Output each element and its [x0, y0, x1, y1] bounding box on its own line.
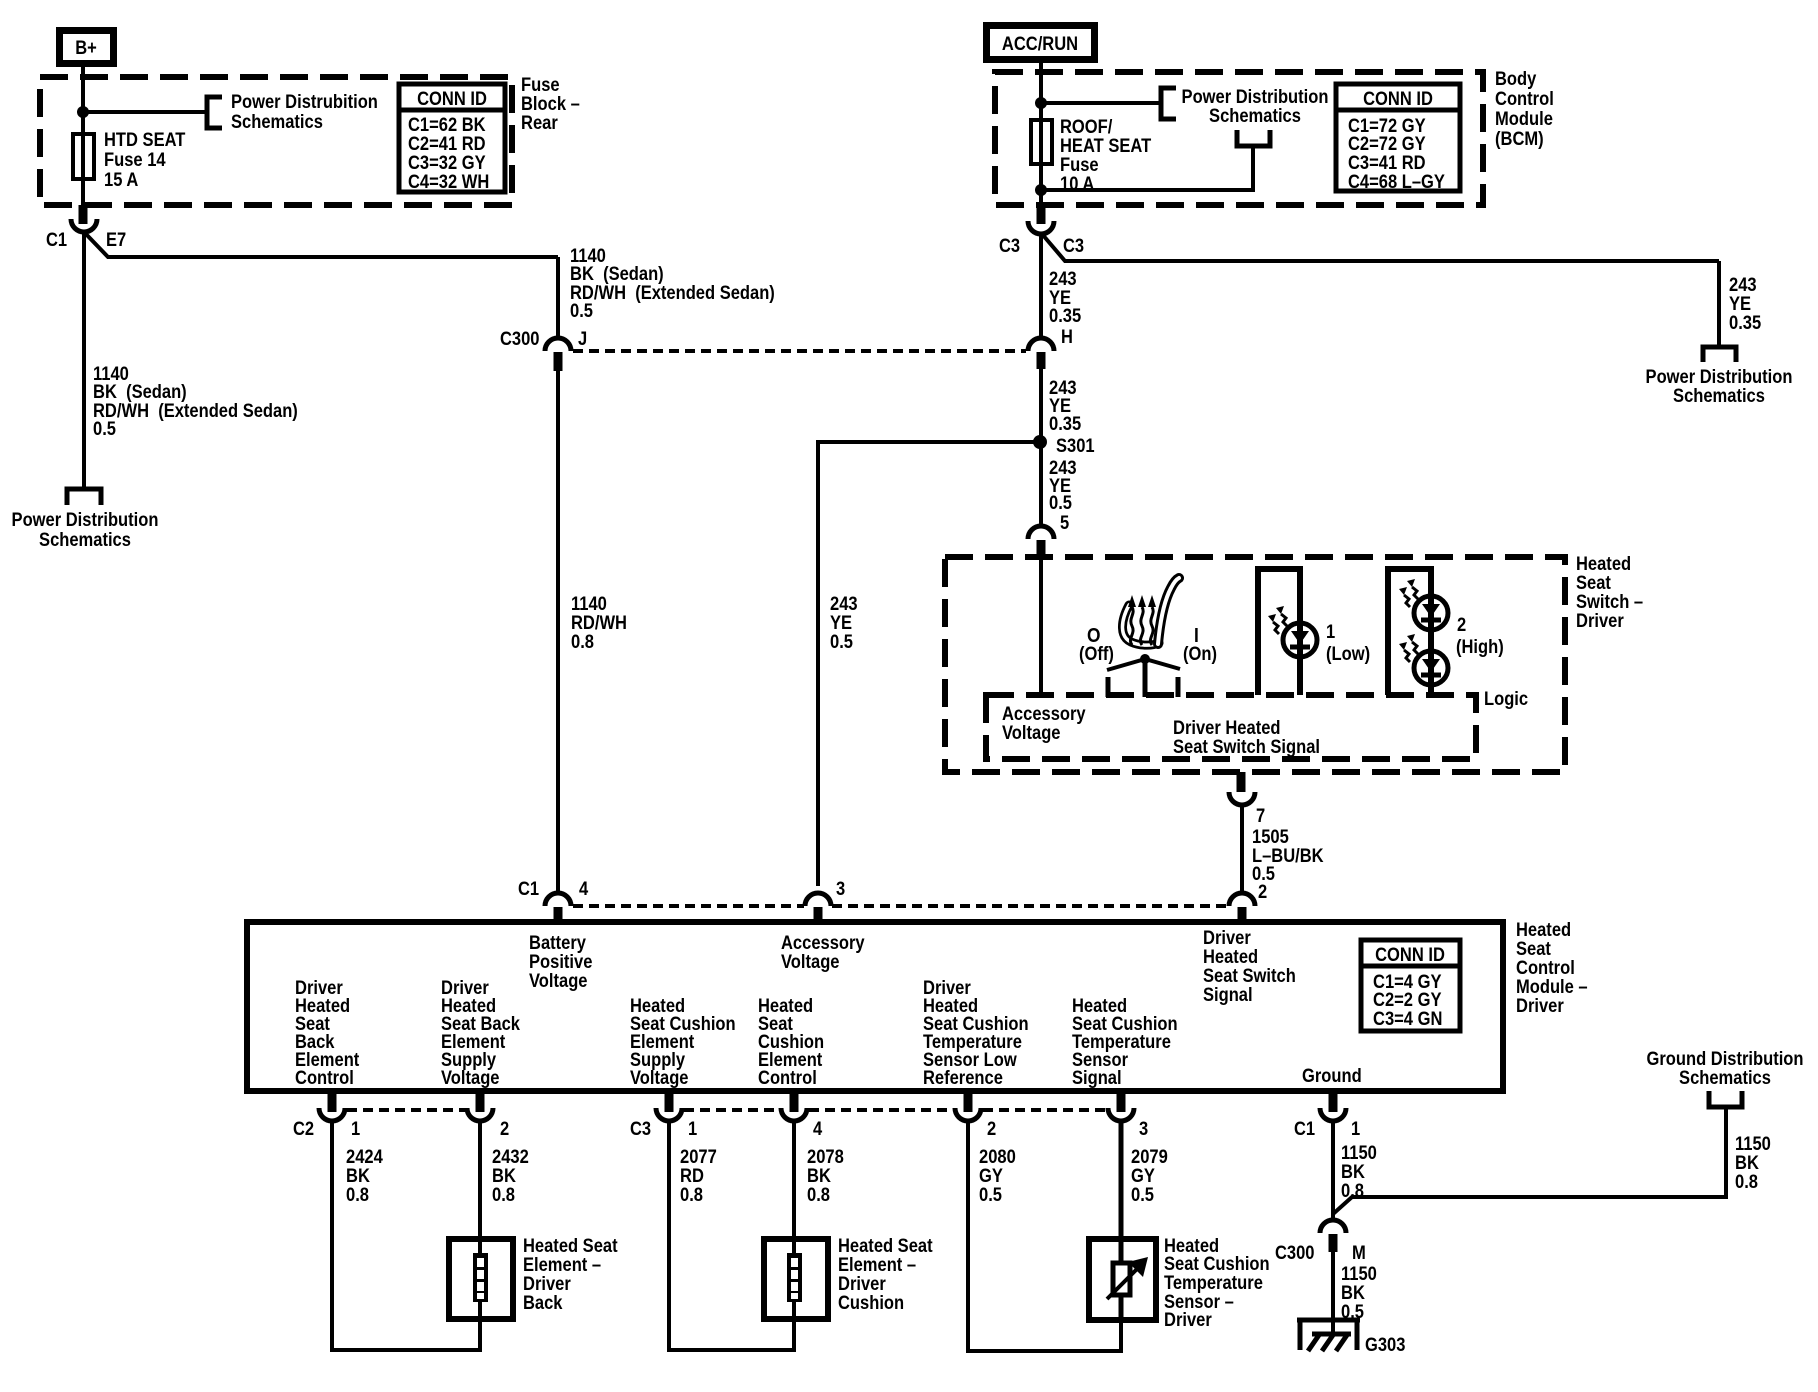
svg-text:BK: BK [346, 1166, 370, 1187]
svg-text:Control: Control [295, 1068, 354, 1089]
svg-text:Seat Switch Signal: Seat Switch Signal [1173, 737, 1320, 758]
svg-text:1150: 1150 [1341, 1264, 1377, 1285]
svg-text:C2: C2 [293, 1119, 314, 1140]
svg-text:C2=41 RD: C2=41 RD [408, 134, 486, 155]
svg-text:0.8: 0.8 [807, 1185, 830, 1206]
svg-text:C2=72 GY: C2=72 GY [1348, 134, 1426, 155]
svg-text:C300: C300 [1275, 1243, 1315, 1264]
wire bracket to fuse output [1041, 148, 1253, 190]
junction node [1035, 97, 1047, 109]
svg-text:G303: G303 [1365, 1335, 1405, 1356]
svg-text:Back: Back [523, 1293, 563, 1314]
svg-text:1505: 1505 [1252, 827, 1289, 848]
wire 1150 BK 0.5 [1331, 1252, 1335, 1336]
svg-text:0.5: 0.5 [830, 632, 853, 653]
svg-text:Voltage: Voltage [441, 1068, 500, 1089]
svg-text:243: 243 [830, 594, 858, 615]
svg-text:C3: C3 [1063, 236, 1084, 257]
ground G303 [1297, 1320, 1360, 1350]
svg-text:Control: Control [1516, 958, 1575, 979]
svg-text:1150: 1150 [1735, 1134, 1771, 1155]
svg-text:C4=68 L–GY: C4=68 L–GY [1348, 172, 1445, 193]
heated seat cushion temperature sensor - driver [1089, 1239, 1156, 1320]
svg-text:Module: Module [1495, 109, 1553, 130]
svg-text:(Low): (Low) [1326, 644, 1370, 665]
svg-text:Switch –: Switch – [1576, 592, 1643, 613]
svg-text:2424: 2424 [346, 1147, 383, 1168]
svg-text:1: 1 [1351, 1119, 1361, 1140]
svg-text:Seat: Seat [1516, 939, 1551, 960]
svg-text:7: 7 [1256, 806, 1265, 827]
svg-text:Accessory: Accessory [1002, 704, 1086, 725]
svg-text:Fuse: Fuse [1060, 155, 1099, 176]
svg-text:Voltage: Voltage [1002, 723, 1061, 744]
svg-text:(Off): (Off) [1079, 644, 1114, 665]
connector C3 pin 2 [964, 1091, 973, 1112]
conn id table (module) [1361, 940, 1460, 1031]
svg-text:Heated: Heated [1203, 947, 1258, 968]
svg-text:Control: Control [1495, 89, 1554, 110]
svg-text:YE: YE [1729, 294, 1751, 315]
svg-text:Reference: Reference [923, 1068, 1003, 1089]
svg-text:C3=41 RD: C3=41 RD [1348, 153, 1426, 174]
heat wave 3 [1150, 607, 1153, 645]
wire ACC/RUN to fuse [1039, 59, 1043, 120]
svg-text:Driver: Driver [1576, 611, 1624, 632]
svg-text:Driver: Driver [838, 1274, 886, 1295]
dashed connector line C300 (J to H) [573, 349, 1026, 353]
wire E7 to C300 [556, 257, 560, 340]
svg-text:RD/WH: RD/WH [571, 613, 627, 634]
svg-text:Ground: Ground [1302, 1066, 1362, 1087]
connector C3 C3 (BCM output) [1037, 205, 1046, 224]
wire C3 to H [1039, 234, 1043, 340]
wire 2079 run [1119, 1120, 1124, 1263]
svg-text:BK: BK [807, 1166, 831, 1187]
wire C3 branch right [1042, 234, 1719, 261]
svg-text:5: 5 [1060, 513, 1070, 534]
conn id table (fuse block) [399, 84, 505, 192]
wire S301 branch to module pin 3 [818, 442, 1040, 886]
wire 2432 run [478, 1120, 482, 1253]
svg-text:C3=32 GY: C3=32 GY [408, 153, 486, 174]
svg-text:ROOF/: ROOF/ [1060, 117, 1113, 138]
svg-text:0.35: 0.35 [1049, 414, 1082, 435]
connector C2 pin 1 [328, 1091, 337, 1112]
svg-text:Control: Control [758, 1068, 817, 1089]
svg-text:Heated Seat: Heated Seat [523, 1236, 618, 1257]
heated seat element - driver cushion [764, 1239, 828, 1319]
svg-text:RD/WH (Extended Sedan): RD/WH (Extended Sedan) [93, 401, 298, 422]
svg-text:BK: BK [1735, 1153, 1759, 1174]
svg-text:2078: 2078 [807, 1147, 844, 1168]
wire C1 ground pin to C300 [1331, 1120, 1335, 1222]
connector C3 pin 4 [790, 1091, 799, 1112]
svg-text:Seat Cushion: Seat Cushion [1164, 1254, 1270, 1275]
connector C1 pin 1 (ground) [1329, 1091, 1338, 1112]
svg-text:Driver: Driver [523, 1274, 571, 1295]
svg-text:BK: BK [1341, 1162, 1365, 1183]
LED indicator 2 (High) [1388, 569, 1431, 695]
power distribution schematics bracket [207, 97, 222, 128]
svg-text:3: 3 [836, 879, 845, 900]
svg-text:2079: 2079 [1131, 1147, 1168, 1168]
svg-text:C3: C3 [630, 1119, 651, 1140]
off-page ref power distribution (bottom left) [67, 489, 101, 505]
svg-text:CONN ID: CONN ID [1375, 945, 1445, 966]
wire H to S301 [1039, 369, 1043, 442]
svg-text:243: 243 [1729, 275, 1757, 296]
wire 1140 RD/WH to module pin 4 [556, 371, 560, 895]
svg-text:(High): (High) [1456, 637, 1504, 658]
svg-text:Fuse 14: Fuse 14 [104, 150, 166, 171]
svg-text:Fuse: Fuse [521, 75, 560, 96]
svg-text:Schematics: Schematics [231, 112, 323, 133]
wire branch to power distribution ref [83, 110, 207, 114]
svg-text:Element –: Element – [838, 1255, 916, 1276]
logic dashed box [986, 695, 1476, 759]
svg-text:15 A: 15 A [104, 170, 139, 191]
wire 243 YE 0.35 (right) [1717, 261, 1721, 346]
wire fuse to box edge [1039, 164, 1043, 205]
heat wave 2 [1140, 607, 1143, 645]
svg-text:Heated: Heated [1516, 920, 1571, 941]
wire 1150 BK 0.8 from ground distribution [1333, 1107, 1726, 1214]
svg-text:Temperature: Temperature [1164, 1273, 1263, 1294]
svg-text:0.8: 0.8 [1735, 1172, 1758, 1193]
svg-text:BK: BK [1341, 1283, 1365, 1304]
svg-text:2080: 2080 [979, 1147, 1016, 1168]
svg-text:C1: C1 [1294, 1119, 1315, 1140]
connector C1 E7 (fuse block output) [81, 179, 85, 205]
svg-text:H: H [1061, 327, 1073, 348]
svg-text:RD/WH (Extended Sedan): RD/WH (Extended Sedan) [570, 283, 775, 304]
splice S301 [1033, 435, 1047, 449]
conn id table (BCM) [1336, 84, 1460, 191]
svg-text:1140: 1140 [571, 594, 607, 615]
svg-text:E7: E7 [106, 230, 126, 251]
svg-text:0.5: 0.5 [1131, 1185, 1154, 1206]
svg-text:C1: C1 [518, 879, 539, 900]
svg-text:HTD SEAT: HTD SEAT [104, 130, 186, 151]
switch lever [1107, 659, 1180, 670]
svg-text:Battery: Battery [529, 933, 586, 954]
fuse F14 HTD SEAT 15A [73, 134, 94, 179]
svg-text:Power Distribution: Power Distribution [12, 510, 159, 531]
connector 5 (switch input) [1028, 526, 1054, 539]
svg-text:0.35: 0.35 [1049, 306, 1082, 327]
svg-text:3: 3 [1139, 1119, 1148, 1140]
wire 2078 run [792, 1120, 796, 1253]
power distribution schematics bracket (BCM) [1161, 88, 1176, 119]
connector C3 pin 3 [1117, 1091, 1126, 1112]
svg-text:C2=2 GY: C2=2 GY [1373, 990, 1442, 1011]
wire accessory voltage [1039, 557, 1043, 695]
fuse ROOF/HEAT SEAT 10A [1031, 120, 1052, 164]
svg-text:2: 2 [1457, 615, 1466, 636]
heated seat switch - driver dashed box [945, 557, 1565, 772]
svg-text:Rear: Rear [521, 113, 558, 134]
svg-text:Ground Distribution: Ground Distribution [1647, 1049, 1804, 1070]
svg-text:Body: Body [1495, 69, 1537, 90]
svg-text:2: 2 [500, 1119, 509, 1140]
svg-text:Logic: Logic [1484, 689, 1528, 710]
svg-text:Driver: Driver [1164, 1310, 1212, 1331]
svg-text:Power Distribution: Power Distribution [1646, 367, 1793, 388]
svg-text:0.5: 0.5 [93, 419, 116, 440]
svg-text:Schematics: Schematics [39, 530, 131, 551]
svg-text:Power Distrubition: Power Distrubition [231, 92, 378, 113]
svg-text:J: J [578, 329, 587, 350]
svg-text:Driver: Driver [1203, 928, 1251, 949]
svg-text:Signal: Signal [1203, 985, 1253, 1006]
svg-text:0.35: 0.35 [1729, 313, 1762, 334]
wire 1140 to power distribution [82, 232, 86, 487]
svg-text:Signal: Signal [1072, 1068, 1122, 1089]
svg-text:2: 2 [1258, 882, 1267, 903]
wire branch to power distribution ref [1041, 101, 1161, 105]
svg-text:1: 1 [1326, 622, 1336, 643]
off-page ref power distribution (right) [1703, 347, 1736, 362]
dashed lines C3 pins [684, 1108, 779, 1112]
svg-text:Module –: Module – [1516, 977, 1588, 998]
svg-text:4: 4 [579, 879, 589, 900]
svg-text:CONN ID: CONN ID [1363, 89, 1433, 110]
wire B+ to fuse [81, 63, 85, 134]
svg-text:2432: 2432 [492, 1147, 529, 1168]
svg-text:S301: S301 [1056, 436, 1095, 457]
svg-text:C300: C300 [500, 329, 540, 350]
svg-text:C4=32 WH: C4=32 WH [408, 172, 489, 193]
svg-text:C1=62 BK: C1=62 BK [408, 115, 486, 136]
junction node [77, 106, 89, 118]
svg-text:RD: RD [680, 1166, 704, 1187]
svg-text:C3: C3 [999, 236, 1020, 257]
wire 2080 run [968, 1120, 1121, 1351]
svg-text:GY: GY [1131, 1166, 1155, 1187]
svg-text:Driver: Driver [1516, 996, 1564, 1017]
svg-text:C3=4 GN: C3=4 GN [1373, 1009, 1442, 1030]
svg-text:B+: B+ [75, 38, 97, 59]
wire S301 to switch pin 5 [1039, 442, 1043, 528]
wire E7 branch to C300 [84, 232, 558, 257]
LED indicator 1 (Low) [1258, 569, 1300, 695]
svg-text:Element –: Element – [523, 1255, 601, 1276]
svg-text:BK (Sedan): BK (Sedan) [93, 382, 187, 403]
power symbol B+ [60, 31, 114, 64]
dashed line C2 pin1-pin2 [347, 1108, 465, 1112]
svg-text:Schematics: Schematics [1679, 1068, 1771, 1089]
svg-text:1150: 1150 [1341, 1143, 1377, 1164]
svg-text:(BCM): (BCM) [1495, 129, 1544, 150]
heated seat icon [1122, 578, 1179, 645]
svg-text:Schematics: Schematics [1673, 386, 1765, 407]
thermistor symbol [1113, 1263, 1130, 1295]
svg-text:Seat: Seat [1576, 573, 1611, 594]
heated seat element - driver back [449, 1239, 513, 1319]
svg-text:GY: GY [979, 1166, 1003, 1187]
svg-text:0.8: 0.8 [680, 1185, 703, 1206]
svg-text:0.5: 0.5 [979, 1185, 1002, 1206]
svg-text:1: 1 [351, 1119, 361, 1140]
svg-text:C1: C1 [46, 230, 67, 251]
svg-text:Driver Heated: Driver Heated [1173, 718, 1281, 739]
svg-text:Positive: Positive [529, 952, 592, 973]
svg-text:Block –: Block – [521, 94, 580, 115]
svg-text:HEAT SEAT: HEAT SEAT [1060, 136, 1152, 157]
svg-text:BK: BK [492, 1166, 516, 1187]
svg-text:1: 1 [688, 1119, 698, 1140]
svg-text:Voltage: Voltage [781, 952, 840, 973]
wire 2424 run [332, 1120, 480, 1350]
svg-text:BK (Sedan): BK (Sedan) [570, 264, 664, 285]
svg-text:Seat Switch: Seat Switch [1203, 966, 1296, 987]
svg-text:0.8: 0.8 [571, 632, 594, 653]
svg-text:ACC/RUN: ACC/RUN [1002, 34, 1078, 55]
fuse block - rear dashed box [40, 77, 512, 205]
svg-text:Voltage: Voltage [630, 1068, 689, 1089]
body control module dashed box [995, 72, 1483, 205]
svg-text:Heated Seat: Heated Seat [838, 1236, 933, 1257]
connector C3 pin 1 [665, 1091, 674, 1112]
svg-text:0.8: 0.8 [346, 1185, 369, 1206]
svg-text:Schematics: Schematics [1209, 106, 1301, 127]
svg-text:Accessory: Accessory [781, 933, 865, 954]
heated seat control module - driver box [247, 922, 1503, 1091]
connector 7 (switch output) [1237, 772, 1246, 792]
svg-text:Cushion: Cushion [838, 1293, 904, 1314]
svg-text:2: 2 [987, 1119, 996, 1140]
svg-text:Power Distribution: Power Distribution [1182, 87, 1329, 108]
svg-text:0.8: 0.8 [492, 1185, 515, 1206]
power symbol ACC/RUN [987, 26, 1095, 60]
svg-text:Heated: Heated [1576, 554, 1631, 575]
connector 2 (module switch signal) [1229, 893, 1255, 906]
svg-text:M: M [1352, 1243, 1366, 1264]
svg-text:CONN ID: CONN ID [417, 89, 487, 110]
svg-text:4: 4 [813, 1119, 823, 1140]
connector C2 pin 2 [476, 1091, 485, 1112]
svg-text:10 A: 10 A [1060, 174, 1095, 195]
svg-text:0.5: 0.5 [1049, 493, 1072, 514]
svg-text:2077: 2077 [680, 1147, 717, 1168]
wire 1505 L-BU/BK [1240, 805, 1244, 895]
svg-text:243: 243 [1049, 269, 1077, 290]
svg-text:0.5: 0.5 [570, 301, 593, 322]
dashed line pin4 to pin3 [573, 904, 804, 908]
dashed line pin3 to pin2 [832, 904, 1227, 908]
wire 2077 run [669, 1120, 794, 1350]
svg-text:Voltage: Voltage [529, 971, 588, 992]
svg-text:YE: YE [830, 613, 852, 634]
logic return bracket (BCM) [1237, 130, 1270, 146]
heat wave 1 [1130, 607, 1133, 645]
svg-text:(On): (On) [1183, 644, 1217, 665]
